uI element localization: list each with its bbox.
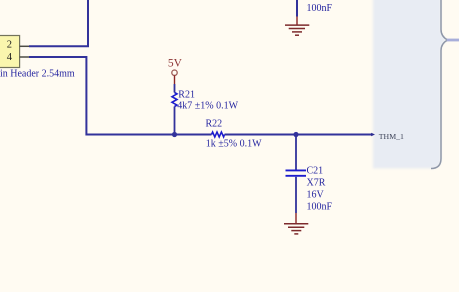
- top capacitor wire (from off-screen cap): [296, 0, 298, 17]
- ground under C21: [284, 213, 308, 234]
- svg-text:1k ±5% 0.1W: 1k ±5% 0.1W: [206, 138, 262, 149]
- junction at R21 bottom: [172, 132, 177, 137]
- svg-text:R22: R22: [206, 119, 223, 130]
- power port 5V: [168, 58, 183, 84]
- ground at top: [285, 17, 309, 36]
- junction at C21 top: [293, 132, 298, 137]
- svg-text:100nF: 100nF: [307, 3, 333, 14]
- wire pin2 up to top edge: [29, 0, 88, 46]
- svg-text:X7R: X7R: [307, 177, 326, 188]
- svg-text:16V: 16V: [307, 189, 325, 200]
- harness entry arrow: [371, 133, 375, 137]
- resistor R21: [172, 84, 177, 135]
- pin 2: [7, 40, 29, 51]
- svg-text:100nF: 100nF: [307, 201, 333, 212]
- resistor R22: [212, 132, 225, 137]
- svg-text:C21: C21: [307, 165, 324, 176]
- svg-text:Pin Header 2.54mm: Pin Header 2.54mm: [0, 69, 75, 80]
- harness cable: [447, 39, 459, 42]
- wire pin4 down and right (main net): [29, 57, 212, 135]
- wire R22 right side to harness entry: [225, 134, 374, 136]
- svg-text:5V: 5V: [168, 58, 183, 70]
- pin 4: [7, 52, 29, 63]
- svg-text:THM_1: THM_1: [379, 132, 404, 141]
- svg-text:R21: R21: [178, 90, 195, 101]
- connector J1 body: [0, 36, 20, 68]
- capacitor C21: [286, 135, 307, 214]
- svg-text:4: 4: [7, 52, 13, 63]
- svg-text:4k7 ±1% 0.1W: 4k7 ±1% 0.1W: [177, 100, 238, 111]
- harness connector body: [373, 0, 448, 169]
- svg-text:2: 2: [7, 40, 12, 51]
